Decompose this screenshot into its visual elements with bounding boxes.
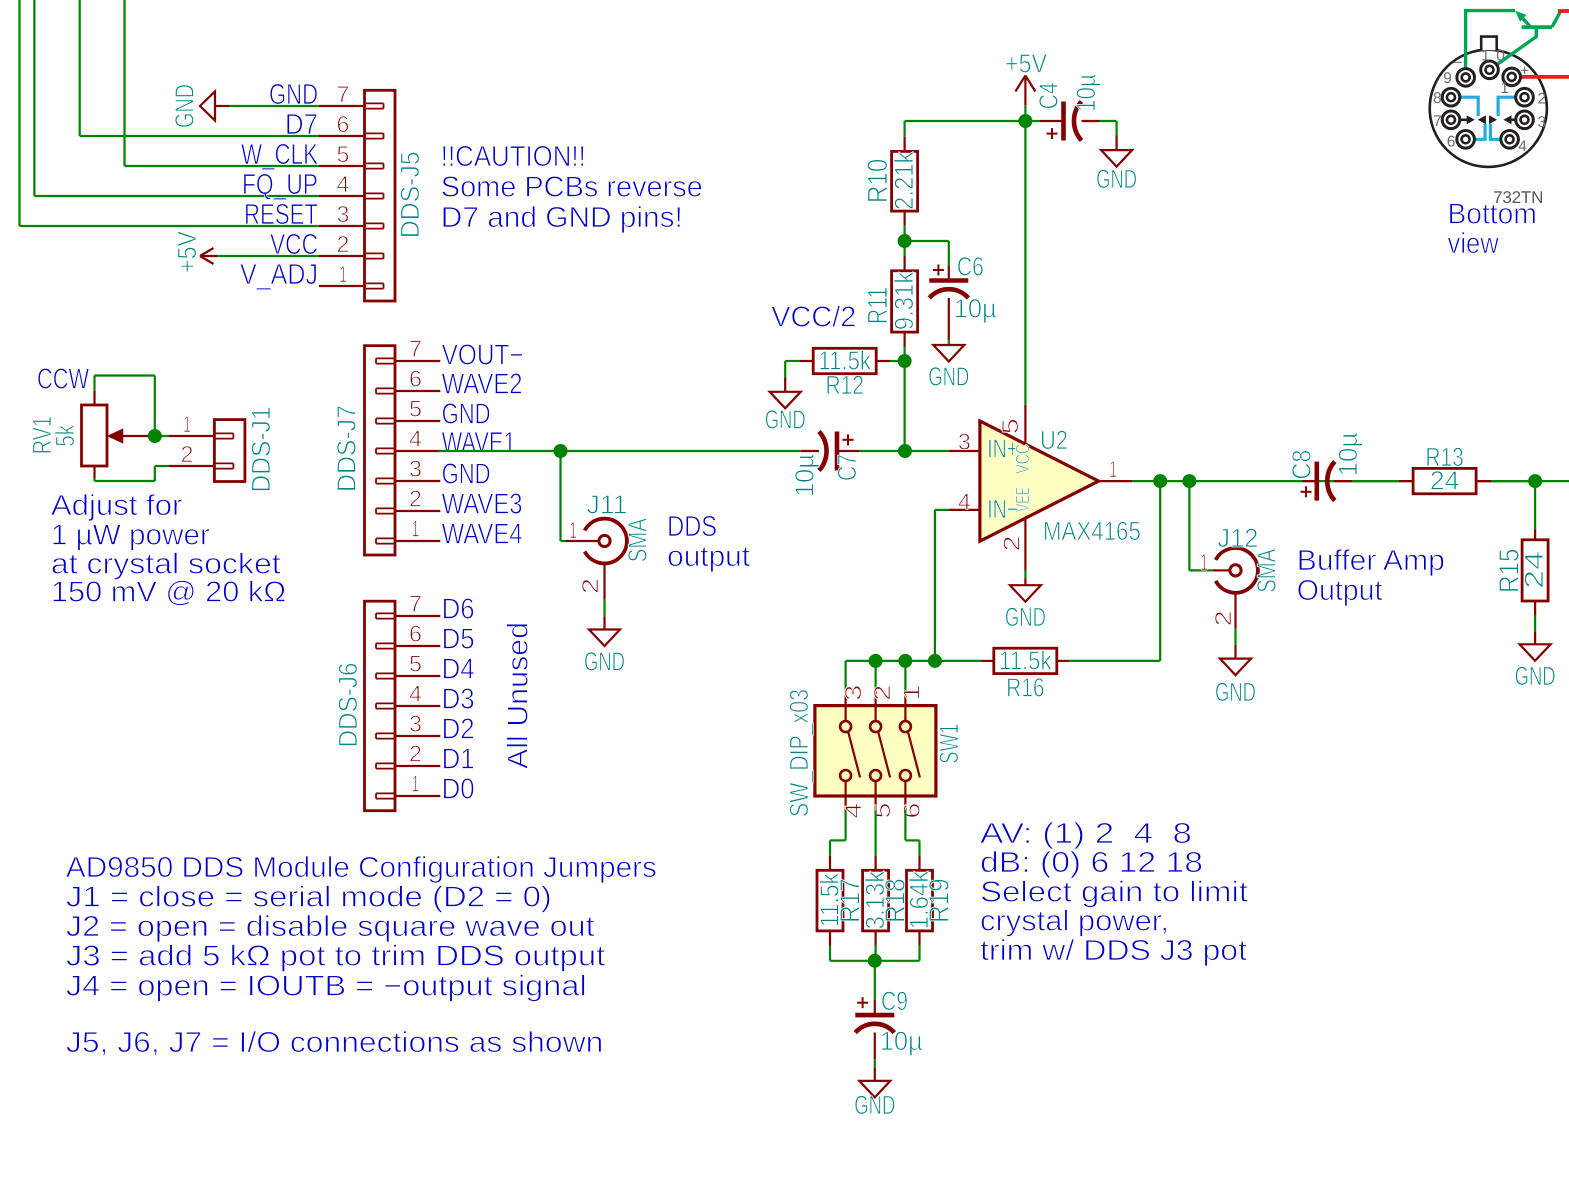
junction output node [1528, 474, 1542, 488]
svg-text:FQ_UP: FQ_UP [242, 169, 318, 201]
DIN pin 2 [1516, 88, 1534, 106]
svg-text:Adjust for: Adjust for [51, 490, 183, 522]
wire SW1 pin1 up [904, 661, 906, 691]
svg-text:RESET: RESET [244, 199, 318, 231]
svg-text:7: 7 [337, 81, 350, 107]
svg-text:J5, J6, J7 = I/O connections a: J5, J6, J7 = I/O connections as shown [66, 1027, 603, 1059]
svg-text:2: 2 [577, 578, 603, 594]
wire D7 net [80, 0, 319, 136]
wire R12 to VCC/2 node [890, 360, 905, 362]
svg-text:R12: R12 [825, 370, 863, 400]
wire C6 to ground [948, 340, 950, 345]
svg-text:1: 1 [899, 685, 925, 701]
wire FQ_UP net [34, 0, 319, 196]
resistor R19 1.64k [904, 856, 955, 946]
junction divider / IN+ [898, 444, 912, 458]
svg-text:10µ: 10µ [1333, 433, 1363, 477]
svg-text:7: 7 [409, 336, 422, 362]
svg-text:4: 4 [840, 802, 866, 818]
wire GND to J5 pin 7 [229, 105, 319, 107]
svg-text:3: 3 [1537, 114, 1546, 131]
wire output node down to R15 [1534, 481, 1536, 529]
svg-text:6: 6 [1447, 134, 1456, 151]
capacitor C6 10u [929, 252, 996, 341]
wire pot bottom to J1 pin 2 [95, 466, 170, 481]
wire SW1 pin6 to R19 [905, 811, 919, 856]
svg-text:6: 6 [409, 621, 422, 647]
svg-text:DDS-J1: DDS-J1 [246, 407, 276, 493]
connector J12 SMA [1200, 523, 1281, 628]
DIN connector 732TN bottom view [1430, 37, 1547, 167]
DIN pin 10 [1481, 61, 1499, 79]
svg-text:−: − [1453, 55, 1462, 72]
svg-text:7: 7 [409, 591, 422, 617]
svg-text:5: 5 [997, 418, 1023, 434]
note bottom view [1448, 199, 1537, 260]
wire cyan pin6 [1474, 124, 1485, 139]
svg-text:10µ: 10µ [954, 293, 997, 323]
svg-text:C7: C7 [832, 454, 862, 481]
junction J12 tap [1182, 474, 1196, 488]
resistor R17 11.5k [815, 856, 866, 946]
svg-text:V_ADJ: V_ADJ [240, 259, 318, 291]
svg-text:Buffer Amp: Buffer Amp [1297, 545, 1445, 577]
svg-text:SW1: SW1 [934, 724, 964, 764]
wire R10 to R11 [903, 226, 905, 256]
ground symbol at U2 [1005, 578, 1046, 632]
wire RESET net [20, 0, 320, 226]
svg-text:output: output [667, 541, 750, 573]
ground symbol at J5 pin 7 [170, 84, 230, 128]
svg-text:3: 3 [409, 456, 422, 482]
note configuration jumpers text [66, 852, 657, 1059]
svg-text:GND: GND [170, 84, 200, 128]
resistor R11 9.31k [862, 256, 919, 347]
svg-text:C9: C9 [881, 986, 908, 1016]
svg-text:VCC/2: VCC/2 [771, 302, 856, 334]
note all unused [503, 622, 535, 769]
svg-text:SMA: SMA [1251, 549, 1281, 593]
svg-text:GND: GND [1096, 164, 1137, 194]
svg-text:8: 8 [1433, 90, 1442, 107]
potentiometer RV1 [27, 391, 148, 478]
ground symbol at J12 [1215, 645, 1256, 707]
resistor R12 11.5k [800, 346, 890, 401]
capacitor C8 10u [1287, 433, 1364, 501]
ground symbol at J11 [584, 616, 625, 676]
DIN pin 6 [1457, 131, 1475, 149]
svg-text:AD9850 DDS Module Configuratio: AD9850 DDS Module Configuration Jumpers [66, 852, 657, 884]
connector DDS-J7 [332, 336, 441, 556]
svg-text:4: 4 [1518, 138, 1527, 155]
svg-text:GND: GND [584, 647, 625, 677]
wire J12 tap down [1189, 481, 1213, 570]
svg-text:R16: R16 [1006, 673, 1044, 703]
svg-text:D0: D0 [442, 774, 475, 806]
resistor R18 3.13k [860, 856, 911, 946]
wire SW1 pin3 up [844, 661, 846, 691]
connector DDS-J6 [333, 591, 440, 811]
svg-text:+5V: +5V [1005, 48, 1047, 78]
svg-text:C6: C6 [957, 252, 984, 282]
svg-text:D4: D4 [442, 654, 475, 686]
junction divider mid C6 tap [898, 234, 912, 248]
svg-text:GND: GND [442, 399, 491, 431]
diode arrows on DIN [1460, 115, 1516, 124]
svg-text:R11: R11 [862, 287, 893, 324]
wire J12 pin2 to ground [1234, 628, 1236, 645]
resistor R13 24 [1399, 442, 1491, 496]
wire pot top to wiper junction [95, 376, 155, 437]
wire W_CLK net [125, 0, 320, 166]
DIN pin 7 [1442, 111, 1460, 129]
svg-text:J1 = close = serial mode (D2 =: J1 = close = serial mode (D2 = 0) [66, 882, 552, 914]
wire SW1 pin5 to R18 [874, 811, 876, 856]
svg-text:2.21k: 2.21k [889, 151, 919, 210]
svg-text:5: 5 [869, 803, 895, 819]
svg-text:4: 4 [409, 426, 422, 452]
svg-text:+5V: +5V [172, 231, 202, 273]
svg-text:6: 6 [899, 803, 925, 819]
ground symbol at R15 [1515, 632, 1556, 691]
svg-text:SMA: SMA [623, 518, 653, 562]
svg-text:R15: R15 [1494, 549, 1525, 593]
svg-text:AV: (1) 2 4 8: AV: (1) 2 4 8 [980, 818, 1192, 850]
svg-text:10µ: 10µ [790, 454, 820, 497]
svg-text:1: 1 [1109, 456, 1117, 482]
wire J11 pin2 to ground [603, 600, 605, 617]
ground symbol at C4 [1096, 135, 1137, 194]
svg-text:DDS: DDS [667, 511, 717, 543]
svg-text:+: + [1520, 63, 1529, 80]
svg-text:5: 5 [409, 396, 422, 422]
svg-text:J11: J11 [587, 490, 628, 520]
svg-text:VCC: VCC [270, 229, 318, 261]
svg-text:trim w/ DDS J3 pot: trim w/ DDS J3 pot [980, 935, 1247, 967]
svg-text:GND: GND [928, 361, 969, 391]
svg-text:GND: GND [1215, 677, 1256, 707]
DIN pin labels [1433, 48, 1546, 156]
junction feedback row 1 [869, 654, 883, 668]
svg-text:Some PCBs reverse: Some PCBs reverse [441, 172, 703, 204]
power +5V top [1005, 48, 1047, 121]
svg-text:VCC: VCC [1013, 444, 1034, 474]
svg-text:4: 4 [337, 171, 350, 197]
wire wiper to J1 pin 1 [148, 435, 169, 437]
wire tap to C6 [905, 241, 949, 266]
svg-text:VEE: VEE [1013, 487, 1034, 512]
resistor R15 24 [1494, 529, 1549, 615]
svg-text:1: 1 [1200, 549, 1208, 575]
svg-text:3: 3 [840, 685, 866, 701]
wire R12 to GND [785, 361, 800, 378]
svg-text:D7 and GND pins!: D7 and GND pins! [441, 202, 683, 234]
wire C9 to ground [874, 1059, 876, 1067]
svg-text:Output: Output [1297, 575, 1383, 607]
transistor symbol on DIN [1497, 11, 1561, 64]
connector DDS-J5 [319, 81, 425, 301]
DIN pin 9 [1457, 69, 1475, 87]
svg-text:150 mV @ 20 kΩ: 150 mV @ 20 kΩ [51, 576, 286, 608]
wire +5V to J5 pin 2 [217, 255, 319, 257]
svg-text:1 µW power: 1 µW power [51, 520, 210, 552]
svg-text:1: 1 [569, 517, 577, 543]
svg-text:view: view [1448, 228, 1500, 260]
svg-text:GND: GND [765, 405, 806, 435]
svg-text:DDS-J6: DDS-J6 [333, 663, 363, 748]
wire C4 to ground [1100, 121, 1117, 135]
svg-text:R19: R19 [924, 878, 955, 922]
ground symbol at C9 [854, 1067, 895, 1120]
wire cyan pin2 [1498, 97, 1516, 116]
junction wiper node [148, 429, 162, 443]
svg-text:WAVE4: WAVE4 [442, 519, 523, 551]
svg-text:5: 5 [409, 651, 422, 677]
wire VCC/2 node down to IN+ wire [903, 361, 905, 451]
svg-text:J4 = open = IOUTB = −output si: J4 = open = IOUTB = −output signal [66, 970, 587, 1002]
svg-text:GND: GND [854, 1090, 895, 1120]
connector J11 SMA [566, 490, 653, 600]
svg-text:D7: D7 [285, 109, 318, 141]
svg-text:2: 2 [1537, 91, 1546, 108]
svg-text:D6: D6 [442, 594, 475, 626]
DIN pin 8 [1442, 88, 1460, 106]
svg-text:Select gain to limit: Select gain to limit [980, 876, 1248, 908]
wire bright red pin1 [1521, 75, 1569, 79]
wire cyan pin4 [1490, 124, 1500, 139]
svg-text:C8: C8 [1287, 450, 1317, 480]
svg-text:11.5k: 11.5k [999, 645, 1052, 675]
svg-text:W_CLK: W_CLK [241, 139, 319, 171]
svg-text:2: 2 [181, 441, 194, 467]
junction feedback row 3 [928, 654, 942, 668]
svg-text:J2 = open = disable square wav: J2 = open = disable square wave out [66, 911, 595, 943]
junction feedback row 2 [898, 654, 912, 668]
wire SW1 pin2 up [874, 661, 876, 691]
svg-text:GND: GND [1005, 602, 1046, 632]
svg-text:2: 2 [999, 536, 1025, 552]
svg-text:7: 7 [1433, 113, 1442, 130]
wire op-amp output [1132, 480, 1569, 482]
svg-text:4: 4 [409, 681, 422, 707]
svg-text:5k: 5k [50, 424, 80, 447]
wire C8 to R13 [1352, 480, 1399, 482]
wire cyan pin8 [1460, 97, 1478, 116]
svg-text:1: 1 [1481, 48, 1490, 65]
svg-text:D5: D5 [442, 624, 475, 656]
svg-text:CCW: CCW [37, 364, 89, 396]
connector DDS-J1 [169, 407, 276, 493]
svg-text:10µ: 10µ [1071, 74, 1101, 112]
op-amp U2 MAX4165 [949, 405, 1141, 571]
svg-text:GND: GND [1515, 661, 1556, 691]
svg-text:10µ: 10µ [880, 1026, 923, 1056]
wire +5V down to op-amp VCC [1024, 121, 1026, 405]
resistor R10 2.21k [862, 137, 919, 226]
wire R18 bottom [874, 946, 876, 961]
wire U2 VEE to ground [1024, 571, 1026, 579]
wire R13 to output node [1491, 480, 1535, 482]
capacitor C7 10u [790, 432, 863, 498]
svg-text:J3 = add 5 kΩ pot to trim DDS: J3 = add 5 kΩ pot to trim DDS output [66, 941, 605, 973]
svg-text:MAX4165: MAX4165 [1043, 516, 1141, 546]
svg-text:C4: C4 [1034, 82, 1064, 109]
wire +5V to C4 [1025, 120, 1040, 122]
wire bright green pin9 loop [1466, 11, 1531, 69]
svg-text:6: 6 [409, 366, 422, 392]
svg-text:GND: GND [269, 79, 318, 111]
resistor R16 11.5k [981, 645, 1069, 702]
note caution text [441, 141, 703, 234]
svg-text:1: 1 [1500, 80, 1509, 97]
wire junction to C9 [874, 961, 876, 1000]
svg-text:Bottom: Bottom [1448, 199, 1537, 231]
svg-text:3: 3 [337, 201, 350, 227]
svg-text:1: 1 [412, 516, 420, 542]
note gain text [980, 818, 1248, 967]
junction +5V node [1018, 114, 1032, 128]
svg-text:DDS-J7: DDS-J7 [332, 405, 362, 492]
note DDS output [667, 511, 750, 573]
svg-text:2: 2 [337, 231, 350, 257]
svg-text:WAVE1: WAVE1 [442, 427, 516, 459]
svg-text:WAVE3: WAVE3 [442, 489, 523, 521]
svg-text:9.31k: 9.31k [889, 271, 919, 330]
wire feedback row [846, 660, 982, 662]
svg-text:VOUT−: VOUT− [442, 340, 524, 372]
note buffer amp output [1297, 545, 1445, 607]
wire R19 bottom [875, 946, 920, 961]
svg-text:1: 1 [339, 261, 347, 287]
svg-text:!!CAUTION!!: !!CAUTION!! [441, 141, 586, 173]
capacitor C4 10u [1034, 74, 1101, 141]
svg-text:3: 3 [958, 429, 971, 455]
junction WAVE1 / J11 tap [554, 444, 568, 458]
wire +5V to divider [905, 121, 1026, 137]
junction R bottoms [868, 954, 882, 968]
wire WAVE1 to C7 [439, 450, 801, 452]
svg-text:U2: U2 [1040, 425, 1068, 455]
svg-text:1: 1 [183, 411, 191, 437]
wire feedback down [1069, 481, 1160, 661]
svg-text:WAVE2: WAVE2 [442, 369, 523, 401]
svg-text:5: 5 [337, 141, 350, 167]
svg-text:9: 9 [1443, 70, 1452, 87]
wire tap down to J11 [561, 451, 567, 541]
DIN pin 1 [1503, 68, 1521, 86]
svg-text:2: 2 [409, 486, 422, 512]
svg-text:D2: D2 [442, 714, 475, 746]
svg-text:3: 3 [409, 711, 422, 737]
svg-text:4: 4 [958, 489, 971, 515]
svg-text:2: 2 [869, 685, 895, 701]
power +5V at J5 pin 2 [172, 231, 217, 273]
svg-text:J12: J12 [1217, 523, 1258, 553]
DIN pin 4 [1501, 131, 1519, 149]
svg-text:R13: R13 [1425, 442, 1463, 472]
svg-text:D1: D1 [442, 744, 475, 776]
wire R17 bottom [830, 946, 875, 961]
capacitor C9 10u [855, 986, 922, 1059]
svg-text:dB: (0) 6 12 18: dB: (0) 6 12 18 [980, 847, 1203, 879]
svg-text:0: 0 [1496, 48, 1505, 65]
wire bright red top [1558, 9, 1569, 13]
wire R11 to VCC/2 node [903, 347, 905, 361]
junction feedback tap [1153, 474, 1167, 488]
ground symbol at R12 [765, 378, 806, 435]
junction VCC/2 node [898, 354, 912, 368]
svg-text:R10: R10 [862, 159, 893, 203]
svg-text:1: 1 [412, 771, 420, 797]
DIN pin 3 [1516, 111, 1534, 129]
svg-text:crystal power,: crystal power, [980, 906, 1169, 938]
wire IN- to feedback row [935, 510, 949, 661]
svg-text:DDS-J5: DDS-J5 [395, 151, 425, 238]
wire C7 to op-amp IN+ [859, 450, 949, 452]
svg-text:6: 6 [337, 111, 350, 137]
ground symbol at C6 [928, 345, 969, 391]
switch SW1 SW_DIP_x03 [784, 685, 964, 819]
wire SW1 pin4 to R17 [830, 811, 846, 856]
svg-text:2: 2 [1210, 610, 1236, 626]
svg-text:All Unused: All Unused [503, 622, 535, 769]
wire R15 to ground [1534, 615, 1536, 632]
svg-text:D3: D3 [442, 684, 475, 716]
svg-text:2: 2 [409, 741, 422, 767]
note adjust text [51, 490, 286, 608]
svg-text:GND: GND [442, 459, 491, 491]
svg-text:SW_DIP_x03: SW_DIP_x03 [784, 689, 814, 817]
